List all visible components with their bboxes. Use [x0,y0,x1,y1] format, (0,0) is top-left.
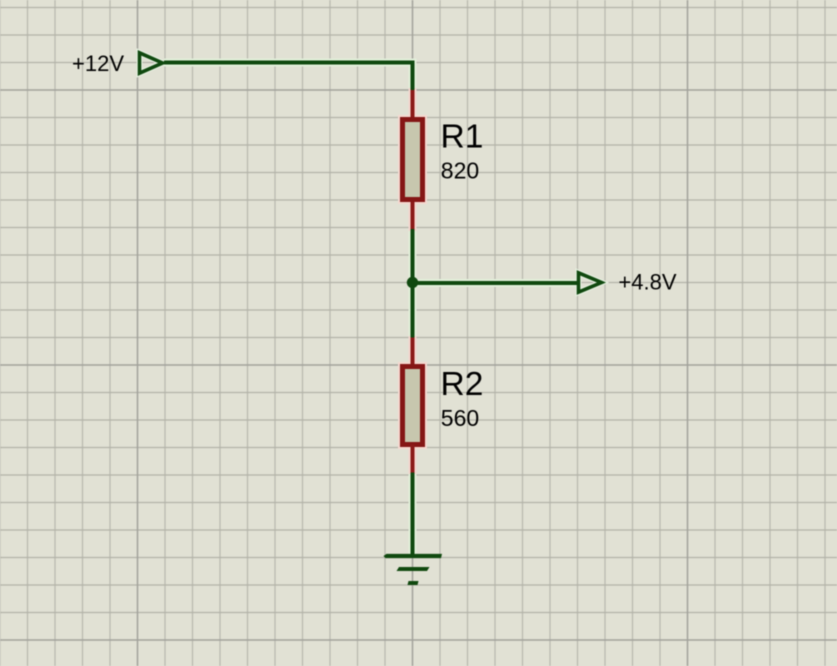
wire from +12V terminal to R1 [164,63,413,91]
output terminal +4.8V [579,273,602,292]
wire R1 to node [411,229,415,283]
svg-text:R1: R1 [441,118,484,155]
svg-text:560: 560 [441,405,479,431]
wire node to R2 [411,283,415,338]
power terminal +12V [140,53,163,73]
svg-text:+12V: +12V [72,51,124,76]
resistor R2 pin 2 [411,445,415,473]
wire halo glow [140,53,602,556]
wire R2 to ground [411,473,415,557]
svg-text:R2: R2 [441,366,484,403]
svg-text:+4.8V: +4.8V [618,269,676,294]
resistor R2 pin 1 [411,338,415,367]
ground [384,554,443,585]
resistor R1 [403,120,423,200]
node junction dot [407,277,418,288]
resistor R1 pin 2 [411,202,415,229]
resistor R2 [403,367,423,445]
svg-text:820: 820 [441,158,479,184]
resistor R1 pin 1 [411,90,415,118]
wire node to +4.8V terminal [413,281,578,285]
